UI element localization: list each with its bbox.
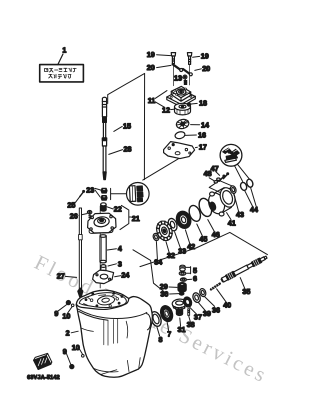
o-ring 46	[197, 197, 214, 219]
svg-text:28: 28	[124, 145, 132, 154]
ring 37	[182, 296, 193, 308]
svg-text:1: 1	[62, 46, 66, 55]
svg-text:24: 24	[121, 271, 129, 280]
skeg lines	[94, 368, 119, 374]
yamaha emblem	[34, 353, 52, 369]
bolt 26	[87, 211, 91, 220]
leader 41	[227, 213, 231, 220]
washer 36	[199, 288, 207, 298]
bolt 19 right	[187, 53, 191, 65]
svg-text:22: 22	[114, 205, 122, 214]
group water pump	[147, 50, 210, 159]
svg-text:8: 8	[159, 335, 163, 344]
group lower shaft parts	[149, 255, 268, 344]
leader 34	[156, 242, 157, 259]
svg-text:20: 20	[202, 64, 210, 73]
bearing 7	[158, 304, 174, 323]
leader 32	[166, 242, 169, 253]
inner body curve	[126, 321, 128, 338]
leader 20 left	[157, 65, 171, 67]
bearing carrier 41	[206, 186, 238, 216]
leader 36	[205, 297, 215, 307]
leader 26	[79, 214, 87, 216]
callout box (lower unit assembly)	[40, 65, 84, 82]
group top-left label	[40, 46, 84, 82]
shaft 4	[100, 235, 106, 263]
pin 20 right	[183, 69, 192, 76]
deck lip lines	[78, 309, 147, 320]
frame line L3	[133, 250, 167, 294]
svg-text:63VJA-5142: 63VJA-5142	[27, 375, 60, 381]
seal 8	[149, 310, 163, 327]
gear 32	[154, 219, 175, 243]
leader 19 right	[193, 55, 200, 58]
interior plate	[97, 295, 115, 306]
leaders 23	[95, 188, 101, 197]
rings 44	[239, 178, 253, 191]
svg-text:3: 3	[118, 260, 122, 269]
leader 37	[190, 307, 197, 314]
group logo	[27, 353, 60, 381]
detail circle (clips)	[220, 144, 242, 166]
driveshaft 15 upper	[102, 97, 106, 138]
bracket 5	[186, 267, 191, 274]
group casing	[54, 290, 152, 377]
leader line 1	[58, 54, 63, 65]
svg-text:19: 19	[147, 50, 155, 59]
svg-text:40: 40	[223, 301, 231, 310]
svg-text:17: 17	[199, 142, 207, 151]
gasket 24	[93, 270, 114, 283]
leader 24	[115, 276, 121, 277]
leader 10 upper	[67, 307, 72, 314]
bolt 9 upper	[66, 301, 74, 307]
leader 46	[208, 220, 215, 232]
leader 39	[199, 303, 206, 311]
group right stack	[133, 144, 267, 294]
pump base plate 21	[88, 213, 116, 233]
bolt 9 lower	[70, 355, 84, 369]
leader 10 lower	[79, 348, 83, 354]
svg-text:21: 21	[132, 214, 140, 223]
pump housing 11	[171, 80, 190, 101]
japanese text line 1	[45, 68, 77, 72]
pinion gear 31	[172, 299, 187, 316]
bearing 29	[178, 283, 186, 292]
leader 38	[189, 316, 191, 322]
spring 40	[211, 284, 220, 290]
bolt axis lines	[173, 64, 189, 86]
svg-text:2: 2	[66, 329, 70, 338]
svg-text:48: 48	[204, 169, 212, 178]
svg-text:34: 34	[154, 258, 162, 267]
front channels	[104, 319, 118, 345]
svg-text:9: 9	[63, 347, 67, 356]
bushing 3	[101, 265, 106, 273]
bolt 19 left	[171, 53, 175, 64]
svg-text:33: 33	[178, 246, 186, 255]
rim inner line	[79, 293, 126, 308]
svg-text:47: 47	[211, 164, 219, 173]
leader 40	[217, 289, 227, 303]
opening rim	[77, 299, 129, 310]
svg-text:4: 4	[118, 244, 122, 253]
washer 6	[180, 278, 186, 281]
svg-text:12: 12	[162, 105, 170, 114]
pin 20 left	[173, 64, 183, 71]
assembly axis line	[99, 206, 101, 288]
svg-text:15: 15	[123, 121, 131, 130]
svg-text:25: 25	[67, 201, 75, 210]
svg-text:6: 6	[193, 274, 197, 283]
nut 23 upper	[101, 188, 107, 193]
svg-text:27: 27	[57, 271, 65, 280]
o-ring 45	[187, 204, 202, 223]
svg-text:35: 35	[242, 287, 250, 296]
nut 23 lower	[101, 196, 107, 201]
bracket to detail circle	[111, 188, 127, 199]
leader 9 upper	[58, 305, 67, 312]
leader 35	[240, 278, 245, 289]
svg-text:7: 7	[167, 330, 171, 339]
pin 25	[80, 191, 85, 197]
bushing 22	[101, 203, 106, 211]
bracket 21	[120, 205, 131, 229]
leader 25	[75, 196, 80, 203]
pin 38	[188, 309, 190, 316]
leader 42	[185, 230, 189, 244]
gasket under 21	[89, 230, 113, 234]
leader 7	[167, 322, 168, 330]
bolt 18	[187, 103, 190, 106]
leader line 28	[109, 150, 123, 155]
bolt 13	[183, 75, 187, 84]
washers 48	[214, 178, 220, 183]
leader 6	[187, 278, 191, 280]
leader to plate 17	[143, 157, 181, 180]
svg-text:26: 26	[70, 211, 78, 220]
group driveshaft	[102, 73, 181, 180]
leader line 15	[114, 126, 122, 131]
ring 43	[229, 185, 237, 194]
japanese text line 2	[49, 74, 71, 78]
leader 13	[181, 77, 183, 79]
leader 45	[197, 224, 203, 236]
rim small holes	[90, 298, 118, 307]
svg-text:11: 11	[148, 96, 156, 105]
ring 39	[192, 292, 202, 304]
bearing 42	[174, 209, 193, 230]
leader 12	[171, 108, 174, 110]
leader 29	[169, 286, 177, 288]
leader 3	[108, 264, 116, 266]
leader 2	[71, 331, 78, 333]
pump base flange	[167, 90, 196, 107]
svg-text:45: 45	[199, 235, 207, 244]
leader 9 lower	[66, 352, 71, 364]
group mid parts	[57, 183, 149, 300]
leaders 44	[245, 188, 256, 207]
leader 17	[195, 146, 197, 148]
clip 5 upper	[180, 265, 185, 271]
gasket 16	[174, 131, 185, 140]
bore opening right	[146, 314, 150, 330]
washer 30	[179, 292, 184, 295]
backdrop panel	[108, 73, 145, 179]
pins 47	[219, 173, 228, 181]
leader 43	[234, 194, 239, 211]
lower ledge	[81, 328, 93, 331]
leader 4	[107, 249, 116, 250]
casing 2 outline	[76, 290, 152, 377]
leader 20 right	[195, 69, 202, 71]
svg-text:41: 41	[228, 218, 236, 227]
svg-text:36: 36	[212, 305, 220, 314]
rim interior marks	[84, 295, 117, 306]
svg-text:14: 14	[201, 120, 209, 129]
svg-text:37: 37	[194, 313, 202, 322]
leader 16	[185, 134, 196, 136]
leader 30	[170, 293, 179, 295]
prop shaft 35	[220, 255, 268, 283]
svg-text:31: 31	[178, 325, 186, 334]
svg-text:16: 16	[198, 131, 206, 140]
svg-text:20: 20	[147, 63, 155, 72]
washer 5 lower	[179, 272, 186, 276]
svg-text:44: 44	[250, 205, 258, 214]
svg-text:10: 10	[62, 312, 70, 321]
leader 22	[107, 207, 113, 209]
washer 33	[167, 217, 179, 232]
insert cartridge 12	[175, 103, 191, 115]
svg-text:30: 30	[160, 290, 168, 299]
detail circle (mount insert)	[127, 183, 150, 206]
watermark	[31, 250, 273, 388]
rim studs	[85, 292, 124, 307]
driveshaft 28 lower	[102, 138, 106, 180]
leader 47 48	[209, 172, 219, 181]
leader 31	[179, 318, 182, 326]
svg-text:18: 18	[199, 98, 207, 107]
leader 18	[191, 102, 197, 105]
svg-text:23: 23	[86, 186, 94, 195]
impeller 14	[176, 118, 190, 129]
leader 27	[65, 276, 76, 277]
svg-text:19: 19	[201, 52, 209, 61]
leaders from detail circle to 44	[235, 164, 250, 181]
leader 14	[191, 124, 200, 126]
leader 19 left	[157, 54, 171, 57]
anode plate under pins	[209, 181, 232, 194]
svg-text:9: 9	[54, 309, 58, 318]
svg-text:39: 39	[203, 309, 211, 318]
tail step	[127, 358, 140, 372]
leader 33	[175, 232, 181, 248]
leader 8	[157, 327, 160, 336]
ring 34	[152, 233, 160, 242]
frame line B	[140, 232, 267, 266]
bracket 11	[155, 91, 167, 108]
plate 17	[164, 142, 195, 159]
shift rod 27	[78, 208, 83, 300]
svg-text:43: 43	[236, 210, 244, 219]
